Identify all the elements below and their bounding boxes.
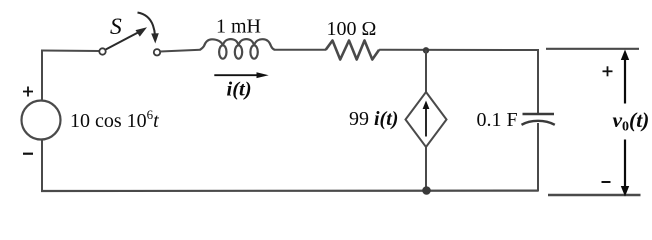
wire junction to dependent source xyxy=(425,50,427,93)
svg-text:0.1 F: 0.1 F xyxy=(477,109,518,131)
svg-text:10 cos 106t: 10 cos 106t xyxy=(70,107,159,132)
output voltage double arrow upper shaft xyxy=(621,50,629,104)
wire dependent source to bottom xyxy=(425,147,427,191)
wire left vertical upper xyxy=(41,50,43,101)
switch blade with arrowhead xyxy=(106,27,147,49)
svg-text:v0(t): v0(t) xyxy=(613,108,650,135)
output bottom rail xyxy=(548,194,641,196)
current arrow i(t) xyxy=(214,72,268,78)
svg-text:99 i(t): 99 i(t) xyxy=(349,108,398,130)
output voltage double arrow lower shaft xyxy=(621,140,629,197)
wire switch to inductor xyxy=(160,50,200,52)
svg-text:S: S xyxy=(110,14,122,40)
inductor L1 coil 1 mH xyxy=(200,39,275,59)
svg-text:1 mH: 1 mH xyxy=(216,16,261,38)
wire bottom xyxy=(41,190,538,193)
voltage source VS circle xyxy=(22,101,61,140)
svg-text:100 Ω: 100 Ω xyxy=(327,18,377,40)
output - sign xyxy=(602,181,611,183)
voltage source + sign xyxy=(23,87,33,97)
output + sign xyxy=(603,66,613,76)
switch S right terminal xyxy=(154,49,160,55)
wire capacitor branch top xyxy=(537,49,539,114)
wire inductor to resistor xyxy=(274,49,326,51)
node junction dot bottom xyxy=(422,186,431,195)
output top rail xyxy=(546,48,639,50)
switch closing motion curved arrow xyxy=(138,13,159,44)
wire top left from source to switch xyxy=(42,50,99,53)
node junction dot top xyxy=(423,47,429,53)
switch S left terminal xyxy=(99,48,105,54)
dependent current source diamond 99 i(t) xyxy=(406,92,447,147)
voltage source - sign xyxy=(23,153,33,155)
wire left vertical lower xyxy=(41,139,43,192)
wire resistor to capacitor branch xyxy=(379,49,539,51)
capacitor C1 0.1 F top plate xyxy=(523,113,555,115)
dependent source internal arrow xyxy=(423,101,430,137)
capacitor C1 bottom curved plate xyxy=(522,121,555,125)
resistor R1 100 ohm zigzag xyxy=(326,41,379,60)
svg-text:i(t): i(t) xyxy=(227,79,252,101)
wire capacitor branch bottom xyxy=(537,123,539,192)
